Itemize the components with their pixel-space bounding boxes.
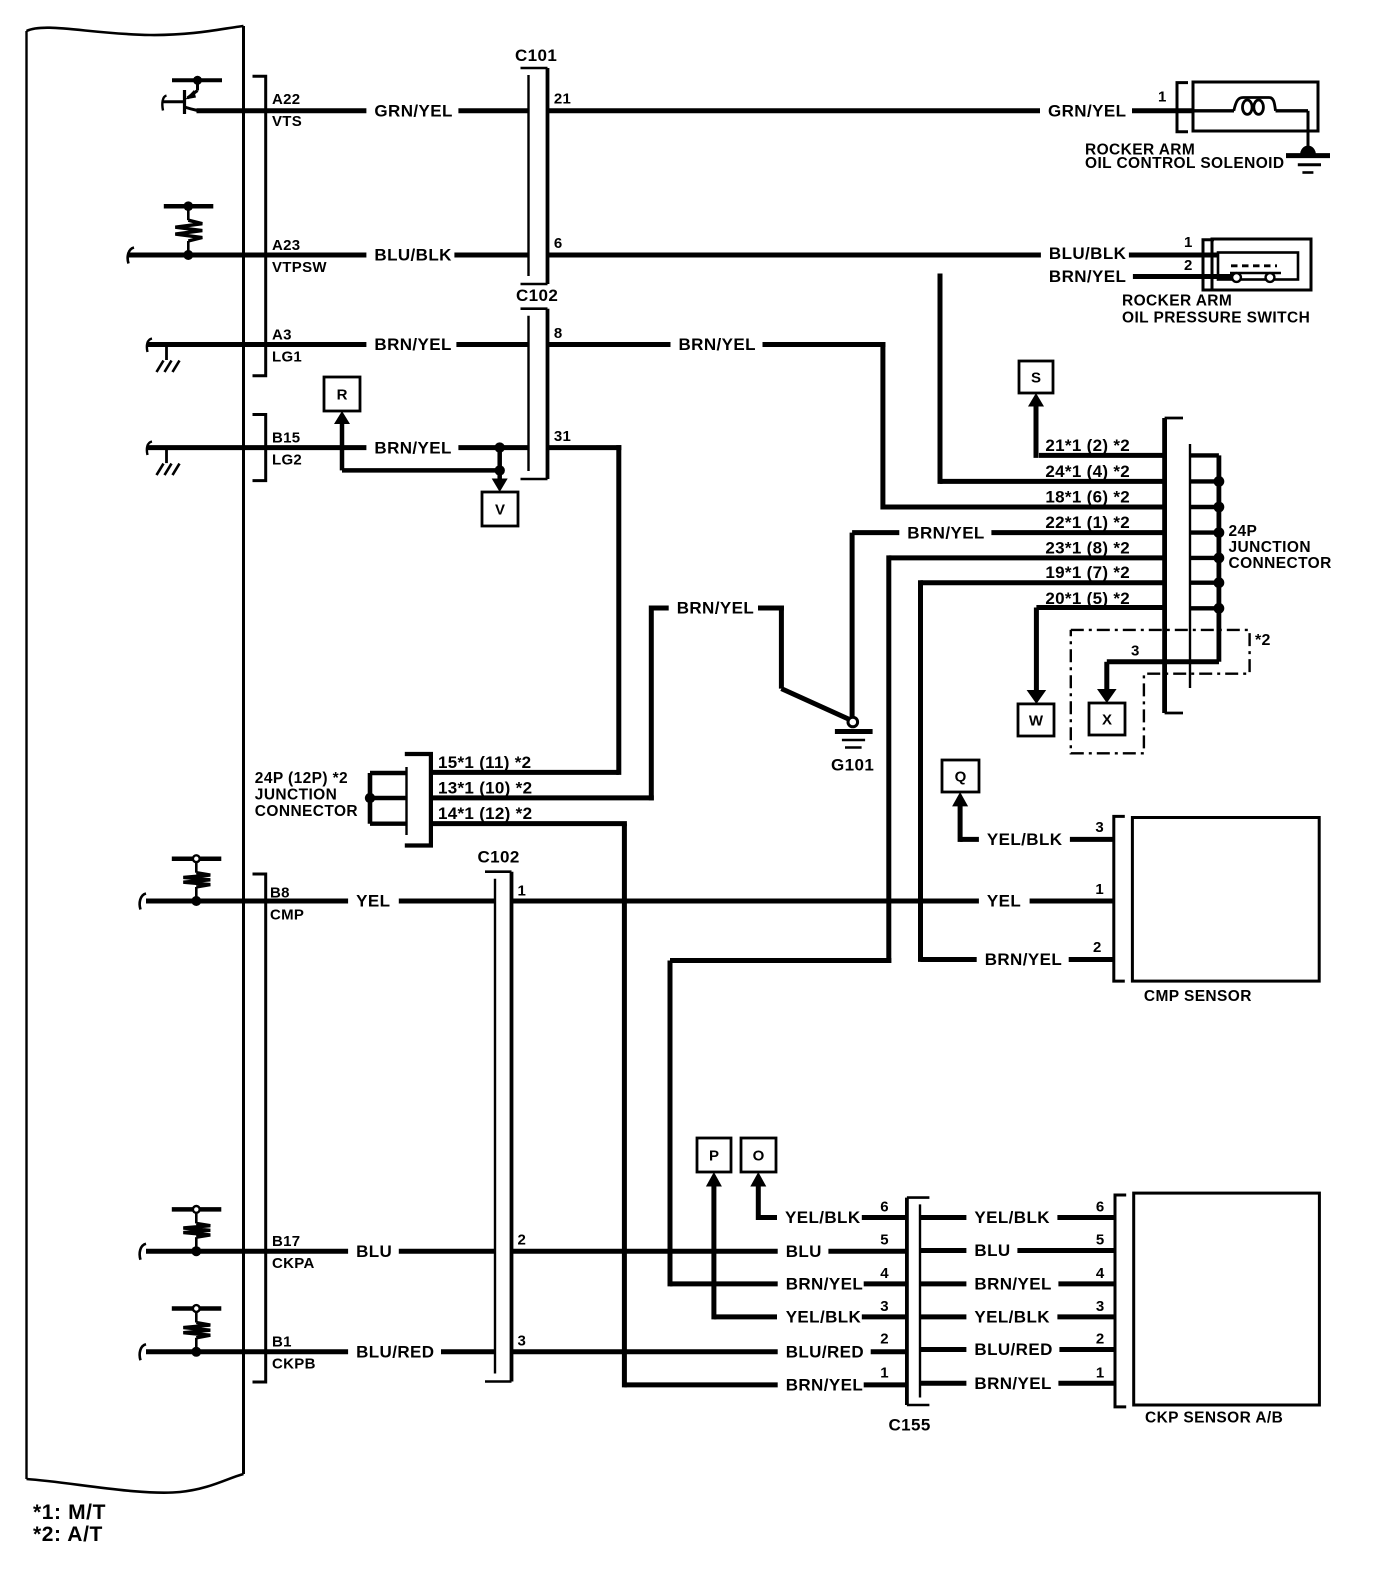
svg-text:BRN/YEL: BRN/YEL (374, 438, 451, 457)
svg-text:A3: A3 (272, 327, 292, 344)
svg-text:BLU/RED: BLU/RED (974, 1340, 1052, 1359)
svg-text:BRN/YEL: BRN/YEL (985, 950, 1062, 969)
svg-text:BLU: BLU (974, 1241, 1010, 1260)
svg-text:3: 3 (1096, 1298, 1105, 1315)
svg-text:*2: A/T: *2: A/T (33, 1523, 103, 1546)
svg-text:19*1 (7) *2: 19*1 (7) *2 (1045, 563, 1130, 582)
svg-text:OIL PRESSURE SWITCH: OIL PRESSURE SWITCH (1122, 310, 1310, 327)
svg-text:JUNCTION: JUNCTION (1229, 539, 1311, 556)
svg-text:CONNECTOR: CONNECTOR (1229, 555, 1332, 572)
svg-text:BLU: BLU (356, 1242, 392, 1261)
svg-text:B15: B15 (272, 430, 300, 447)
svg-text:BRN/YEL: BRN/YEL (907, 523, 984, 542)
svg-text:BLU/RED: BLU/RED (786, 1343, 864, 1362)
svg-text:1: 1 (1095, 881, 1104, 898)
svg-text:JUNCTION: JUNCTION (255, 787, 337, 804)
svg-text:6: 6 (1096, 1199, 1105, 1216)
svg-text:1: 1 (880, 1364, 889, 1381)
svg-text:B8: B8 (270, 885, 290, 902)
svg-text:18*1 (6) *2: 18*1 (6) *2 (1045, 488, 1130, 507)
svg-text:V: V (495, 502, 505, 519)
svg-text:BLU/BLK: BLU/BLK (374, 246, 452, 265)
svg-text:CKPA: CKPA (272, 1255, 315, 1272)
svg-text:1: 1 (518, 883, 527, 900)
svg-text:C102: C102 (478, 848, 520, 867)
svg-text:5: 5 (1096, 1232, 1105, 1249)
svg-text:2: 2 (1093, 939, 1102, 956)
svg-text:LG1: LG1 (272, 349, 302, 366)
svg-text:2: 2 (1096, 1331, 1105, 1348)
svg-text:2: 2 (1184, 257, 1193, 274)
svg-text:C155: C155 (889, 1416, 931, 1435)
svg-text:2: 2 (880, 1331, 889, 1348)
svg-text:GRN/YEL: GRN/YEL (374, 102, 452, 121)
svg-text:BLU: BLU (786, 1242, 822, 1261)
svg-text:BLU/RED: BLU/RED (356, 1343, 434, 1362)
svg-text:VTPSW: VTPSW (272, 259, 327, 276)
svg-text:LG2: LG2 (272, 452, 302, 469)
svg-text:15*1 (11) *2: 15*1 (11) *2 (438, 753, 531, 772)
svg-text:A23: A23 (272, 237, 300, 254)
svg-text:14*1 (12) *2: 14*1 (12) *2 (438, 804, 532, 823)
svg-text:*1: M/T: *1: M/T (33, 1501, 106, 1524)
svg-text:2: 2 (518, 1232, 527, 1249)
svg-text:OIL CONTROL SOLENOID: OIL CONTROL SOLENOID (1085, 155, 1284, 172)
svg-text:B17: B17 (272, 1233, 300, 1250)
svg-text:24P: 24P (1229, 523, 1258, 540)
svg-text:YEL: YEL (356, 892, 390, 911)
svg-text:6: 6 (554, 235, 563, 252)
svg-text:R: R (337, 387, 348, 404)
svg-text:CKP SENSOR A/B: CKP SENSOR A/B (1145, 1410, 1283, 1427)
svg-text:CMP SENSOR: CMP SENSOR (1144, 988, 1252, 1005)
svg-text:BRN/YEL: BRN/YEL (374, 335, 451, 354)
svg-text:*2: *2 (1255, 632, 1271, 649)
svg-text:BRN/YEL: BRN/YEL (1049, 267, 1126, 286)
svg-text:A22: A22 (272, 91, 300, 108)
svg-text:Q: Q (955, 769, 967, 786)
svg-text:YEL/BLK: YEL/BLK (786, 1308, 862, 1327)
svg-text:G101: G101 (831, 756, 874, 775)
svg-text:YEL: YEL (987, 892, 1021, 911)
svg-text:4: 4 (1096, 1265, 1105, 1282)
svg-text:4: 4 (880, 1265, 889, 1282)
svg-text:13*1 (10) *2: 13*1 (10) *2 (438, 778, 532, 797)
svg-text:23*1 (8) *2: 23*1 (8) *2 (1045, 538, 1130, 557)
svg-text:21*1 (2) *2: 21*1 (2) *2 (1045, 436, 1130, 455)
svg-text:BRN/YEL: BRN/YEL (679, 335, 756, 354)
svg-text:YEL/BLK: YEL/BLK (785, 1208, 861, 1227)
svg-text:8: 8 (554, 325, 563, 342)
svg-text:24P (12P) *2: 24P (12P) *2 (255, 770, 348, 787)
svg-text:CMP: CMP (270, 907, 304, 924)
svg-text:W: W (1029, 713, 1044, 730)
svg-text:5: 5 (880, 1232, 889, 1249)
svg-text:C102: C102 (516, 286, 558, 305)
svg-text:3: 3 (1131, 643, 1140, 660)
svg-text:YEL/BLK: YEL/BLK (987, 830, 1063, 849)
svg-text:CONNECTOR: CONNECTOR (255, 803, 358, 820)
svg-text:CKPB: CKPB (272, 1356, 316, 1373)
svg-text:O: O (753, 1148, 765, 1165)
svg-text:BRN/YEL: BRN/YEL (786, 1376, 863, 1395)
svg-text:X: X (1102, 712, 1112, 729)
svg-text:3: 3 (1095, 819, 1104, 836)
svg-text:3: 3 (880, 1298, 889, 1315)
svg-text:GRN/YEL: GRN/YEL (1048, 102, 1126, 121)
svg-text:YEL/BLK: YEL/BLK (974, 1208, 1050, 1227)
svg-text:BLU/BLK: BLU/BLK (1049, 244, 1127, 263)
svg-text:1: 1 (1184, 234, 1193, 251)
svg-text:22*1 (1) *2: 22*1 (1) *2 (1045, 513, 1130, 532)
svg-text:3: 3 (518, 1333, 527, 1350)
svg-text:20*1 (5) *2: 20*1 (5) *2 (1045, 589, 1130, 608)
svg-text:24*1 (4) *2: 24*1 (4) *2 (1045, 462, 1130, 481)
svg-text:1: 1 (1096, 1364, 1105, 1381)
svg-text:6: 6 (880, 1199, 889, 1216)
svg-text:BRN/YEL: BRN/YEL (786, 1275, 863, 1294)
svg-text:BRN/YEL: BRN/YEL (974, 1374, 1051, 1393)
svg-text:S: S (1031, 370, 1041, 387)
svg-text:B1: B1 (272, 1334, 292, 1351)
svg-text:YEL/BLK: YEL/BLK (974, 1308, 1050, 1327)
svg-text:BRN/YEL: BRN/YEL (677, 599, 754, 618)
svg-text:VTS: VTS (272, 113, 302, 130)
svg-text:31: 31 (554, 428, 571, 445)
svg-text:1: 1 (1158, 89, 1167, 106)
svg-text:P: P (709, 1148, 719, 1165)
svg-text:BRN/YEL: BRN/YEL (974, 1275, 1051, 1294)
svg-text:C101: C101 (515, 46, 557, 65)
svg-text:21: 21 (554, 91, 571, 108)
svg-text:ROCKER ARM: ROCKER ARM (1122, 293, 1232, 310)
